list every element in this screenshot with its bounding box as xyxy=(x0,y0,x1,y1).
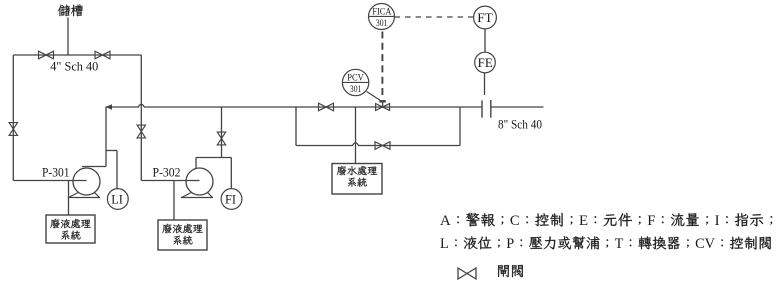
svg-text:PCV: PCV xyxy=(347,72,364,83)
svg-text:301: 301 xyxy=(376,18,388,29)
svg-text:F: F xyxy=(647,213,655,229)
svg-text:T: T xyxy=(615,236,624,252)
svg-text:A: A xyxy=(440,213,451,229)
svg-text:4" Sch 40: 4" Sch 40 xyxy=(50,59,98,74)
svg-text:FT: FT xyxy=(477,10,493,25)
svg-text:LI: LI xyxy=(111,192,123,206)
svg-text:L: L xyxy=(440,236,449,252)
svg-text:E: E xyxy=(579,213,588,229)
svg-text:P-302: P-302 xyxy=(153,166,181,180)
svg-text:C: C xyxy=(510,213,520,229)
svg-text:301: 301 xyxy=(350,84,362,95)
svg-text:FE: FE xyxy=(478,56,493,70)
svg-text:P-301: P-301 xyxy=(42,166,70,180)
svg-text:8" Sch 40: 8" Sch 40 xyxy=(498,117,542,132)
svg-text:P: P xyxy=(506,236,514,252)
svg-text:I: I xyxy=(715,213,720,229)
svg-text:CV: CV xyxy=(695,236,716,252)
svg-text:FI: FI xyxy=(225,192,236,206)
svg-text:FICA: FICA xyxy=(372,7,391,18)
